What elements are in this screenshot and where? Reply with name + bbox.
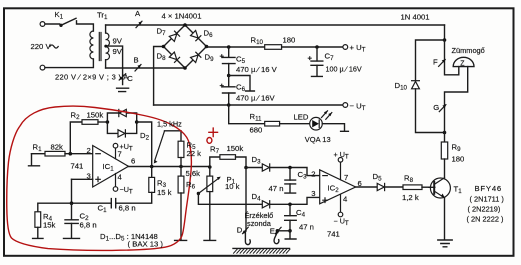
svg-text:3: 3: [311, 189, 315, 198]
svg-text:7: 7: [118, 150, 122, 159]
svg-text:E: E: [270, 227, 275, 236]
svg-text:+: +: [308, 54, 313, 63]
svg-text:180: 180: [283, 36, 296, 45]
svg-text:3: 3: [87, 171, 91, 180]
svg-text:15k: 15k: [43, 221, 56, 230]
svg-text:6,8 n: 6,8 n: [80, 221, 97, 230]
svg-text:G: G: [433, 103, 439, 112]
svg-text:680: 680: [250, 126, 263, 135]
svg-text:180: 180: [452, 155, 465, 164]
svg-text:5,6k: 5,6k: [186, 169, 201, 178]
svg-text:47 n: 47 n: [269, 184, 284, 193]
svg-text:220 V: 220 V: [31, 42, 52, 51]
svg-text:2: 2: [87, 146, 91, 155]
svg-text:szonda: szonda: [247, 219, 272, 228]
svg-text:470 µ ⁄ 16 V: 470 µ ⁄ 16 V: [236, 65, 278, 74]
svg-text:F: F: [433, 58, 438, 67]
svg-text:+: +: [220, 81, 225, 90]
svg-text:6: 6: [358, 179, 362, 188]
svg-text:100 µ ⁄ 16V: 100 µ ⁄ 16V: [326, 65, 362, 74]
svg-text:C: C: [127, 74, 133, 83]
svg-text:22 k: 22 k: [187, 149, 202, 158]
svg-text:BFY46: BFY46: [475, 184, 503, 193]
svg-text:15 k: 15 k: [157, 188, 172, 197]
svg-text:1,2 k: 1,2 k: [402, 193, 419, 202]
svg-text:( 2N 2222 ): ( 2N 2222 ): [467, 215, 504, 224]
svg-text:1,5 kHz: 1,5 kHz: [157, 120, 182, 129]
svg-text:470 µ ⁄ 16V: 470 µ ⁄ 16V: [236, 94, 275, 103]
svg-text:VQA 13: VQA 13: [305, 135, 331, 144]
svg-text:82k: 82k: [51, 143, 64, 152]
svg-text:4: 4: [118, 173, 123, 182]
svg-text:150k: 150k: [87, 111, 104, 120]
svg-text:2: 2: [311, 170, 315, 179]
svg-text:4 × 1N4001: 4 × 1N4001: [162, 12, 202, 21]
svg-text:6: 6: [131, 157, 135, 166]
svg-text:6,8 n: 6,8 n: [119, 204, 136, 213]
svg-text:( BAX 13 ): ( BAX 13 ): [128, 240, 164, 249]
svg-text:1N 4001: 1N 4001: [401, 13, 430, 22]
svg-text:4: 4: [343, 195, 348, 204]
svg-text:Zümmogő: Zümmogő: [452, 46, 485, 55]
svg-text:150k: 150k: [227, 144, 244, 153]
svg-text:D: D: [237, 226, 243, 235]
svg-text:741: 741: [327, 230, 340, 239]
svg-text:47 n: 47 n: [299, 223, 314, 232]
svg-text:B: B: [134, 56, 139, 65]
svg-text:A: A: [135, 9, 141, 18]
svg-text:9V: 9V: [113, 47, 123, 56]
svg-text:( 2N1711 ): ( 2N1711 ): [470, 195, 504, 204]
svg-text:9V: 9V: [113, 37, 123, 46]
svg-text:( 2N2219): ( 2N2219): [468, 205, 501, 214]
svg-text:+: +: [220, 52, 225, 61]
svg-text:Z: Z: [460, 61, 465, 68]
svg-text:LED: LED: [294, 113, 309, 122]
svg-text:741: 741: [71, 162, 84, 171]
svg-text:10 k: 10 k: [225, 182, 240, 191]
svg-text:220 V ⁄ 2×9 V ; 3 VA: 220 V ⁄ 2×9 V ; 3 VA: [55, 73, 129, 82]
svg-text:7: 7: [344, 173, 348, 182]
